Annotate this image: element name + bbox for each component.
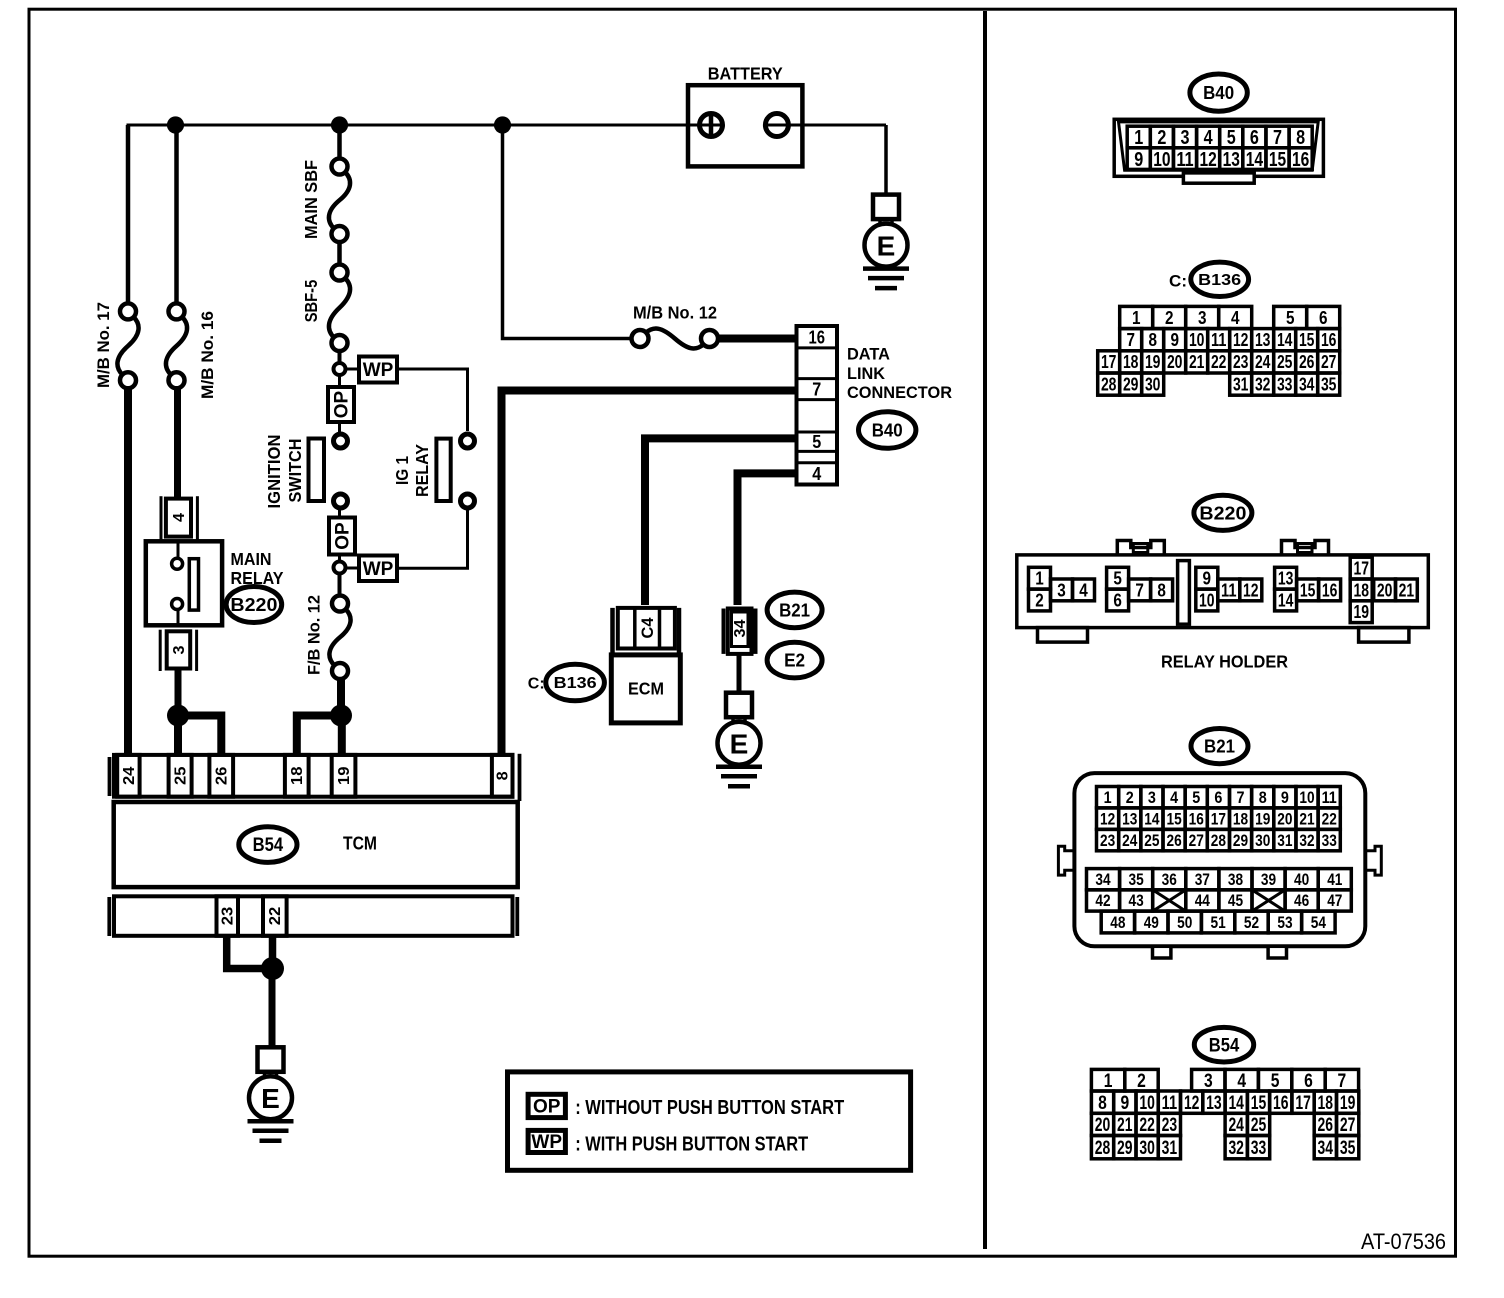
TCM pin 24 [117,755,139,797]
TCM pin 23 [217,896,239,936]
tag OP (upper) [328,387,354,422]
B136 pin 21 [1186,351,1208,373]
ignition switch upper contact [334,434,348,448]
svg-text:15: 15 [1300,579,1316,600]
svg-text:18: 18 [1318,1092,1334,1114]
B21 pin 26 [1163,829,1185,850]
ground E (battery) [873,195,899,220]
B54 pin 22 [1136,1113,1158,1135]
B21 pin 17 [1207,808,1229,829]
B21 pin 39 [1252,869,1285,890]
svg-text:LINK: LINK [847,364,886,383]
svg-text:24: 24 [1255,352,1271,372]
B40 pin 10 [1150,148,1173,170]
svg-text:B220: B220 [1199,502,1246,523]
svg-text:16: 16 [1189,810,1204,828]
B136 pin 15 [1296,329,1318,351]
svg-text:20: 20 [1277,810,1292,828]
junction node relay output [167,705,189,727]
wire WP to IG1 relay upper [397,369,468,431]
svg-text:33: 33 [1251,1137,1267,1159]
B54 pin 15 [1247,1091,1269,1113]
B136 pin 27 [1318,351,1340,373]
svg-text:B54: B54 [253,835,284,856]
svg-text:B136: B136 [554,675,597,692]
data link connector cell divider [797,450,838,453]
svg-text:46: 46 [1294,892,1309,910]
svg-text:3: 3 [1057,579,1066,600]
B54 pin 25 [1247,1113,1269,1135]
wire OP to ignition switch [338,422,341,433]
node circle upper OP/WP [334,363,346,375]
svg-text:24: 24 [1228,1114,1244,1136]
svg-text:29: 29 [1117,1137,1133,1159]
svg-text:28: 28 [1095,1137,1111,1159]
B136 pin 17 [1098,351,1120,373]
svg-text:29: 29 [1123,374,1139,394]
wire node to F/B No.12 fuse [338,574,342,597]
wire node to WP box lower [346,567,360,570]
svg-text:15: 15 [1167,810,1182,828]
svg-text:1: 1 [1104,789,1112,807]
B54 pin 29 [1114,1136,1136,1159]
B21 right latch [1365,846,1382,875]
data link connector cell divider [797,346,838,349]
svg-text:29: 29 [1233,832,1248,850]
main relay coil bar [189,559,198,610]
B136 pin 24 [1252,351,1274,373]
svg-text:4: 4 [1237,1070,1246,1092]
B21 pin 54 [1302,911,1335,933]
svg-text:15: 15 [1299,330,1315,350]
B40 pin 7 [1266,126,1289,148]
B21 pin 42 [1087,890,1120,911]
B21 pin 28 [1207,829,1229,850]
wire 34 to ground [737,654,742,694]
svg-text:13: 13 [1278,568,1294,589]
B21 pin 12 [1097,808,1119,829]
svg-text:6: 6 [1214,789,1222,807]
B21 pin 2 [1119,787,1141,808]
B54 pin 27 [1337,1113,1359,1135]
svg-text:16: 16 [809,328,826,348]
svg-text:11: 11 [1322,789,1337,807]
svg-text:9: 9 [1170,330,1179,350]
B21 pin 5 [1185,787,1207,808]
B40 pin 1 [1127,126,1150,148]
wire node to WP box [346,368,360,371]
B220 pins 9 10 [1196,567,1218,589]
B136 pin 23 [1230,351,1252,373]
svg-text:48: 48 [1110,914,1125,932]
svg-text:3: 3 [1204,1070,1213,1092]
B54 pin 26 [1314,1113,1336,1135]
svg-text:25: 25 [1144,832,1159,850]
svg-text:14: 14 [1278,590,1294,611]
IG 1 relay upper contact [461,434,475,448]
svg-text:4: 4 [1204,126,1213,149]
wire M/B No.12 fuse to DLC pin 16 [718,335,797,343]
svg-text:8: 8 [1296,126,1305,149]
B21 pin 13 [1119,808,1141,829]
svg-text:33: 33 [1322,832,1337,850]
svg-text:4: 4 [1170,789,1179,807]
svg-text:12: 12 [1184,1092,1200,1114]
svg-text:22: 22 [1139,1114,1155,1136]
TCM pin 22 [263,896,287,936]
svg-text:E: E [730,729,749,760]
svg-text:6: 6 [1250,126,1259,149]
svg-text:AT-07536: AT-07536 [1361,1229,1446,1254]
B21 pin 35 [1120,869,1153,890]
svg-text:18: 18 [1123,352,1139,372]
svg-text:4: 4 [171,513,188,522]
svg-text:3: 3 [1181,126,1190,149]
data link connector cell divider [797,398,838,401]
svg-text:23: 23 [1162,1114,1178,1136]
svg-text:6: 6 [1113,590,1122,611]
svg-text:1: 1 [1104,1070,1113,1092]
connector ref B40 (pinout) [1190,74,1247,111]
B136 pin 34 [1296,373,1318,395]
battery negative terminal [765,114,788,137]
fuse F/B No.12 [332,596,348,612]
B21 pin 40 [1285,869,1318,890]
svg-text:TCM: TCM [343,834,377,854]
svg-text:20: 20 [1095,1114,1111,1136]
svg-text:10: 10 [1299,789,1314,807]
connector ref B40 (DLC) [859,412,916,449]
svg-text:8: 8 [1157,579,1166,600]
B54 pin 9 [1114,1091,1136,1113]
tag WP (lower) [359,556,397,582]
B54 pin 18 [1314,1091,1336,1113]
B54 pin 4 [1225,1069,1258,1091]
svg-text:21: 21 [1117,1114,1133,1136]
svg-text:B220: B220 [230,594,277,615]
TCM top row left wing [108,757,112,796]
svg-text:14: 14 [1277,330,1293,350]
svg-text:12: 12 [1199,148,1216,171]
svg-text:IGNITION: IGNITION [264,435,284,509]
svg-text:23: 23 [1100,832,1115,850]
svg-text:CONNECTOR: CONNECTOR [847,383,952,402]
svg-text:C4: C4 [638,617,657,639]
tag WP (upper) [359,357,397,383]
svg-text:31: 31 [1162,1137,1178,1159]
svg-text:RELAY HOLDER: RELAY HOLDER [1161,652,1288,672]
legend box [508,1072,911,1170]
B21 pin 31 [1274,829,1296,850]
B40 pin 8 [1289,126,1312,148]
svg-text:19: 19 [1353,601,1369,622]
svg-text:E: E [877,230,896,261]
svg-text:8: 8 [495,771,512,780]
connector ref B21 (34) [767,592,822,628]
fuse M/B No.16 [169,303,185,319]
connector ref B220 (pinout) [1194,495,1252,530]
connector ref B21 (pinout) [1191,729,1248,764]
svg-text:10: 10 [1153,148,1170,171]
B220 pin 21 [1396,579,1418,601]
svg-text:9: 9 [1120,1092,1129,1114]
B220 pin 8 [1151,579,1173,601]
TCM top pin row [114,755,513,797]
B21 pin 10 [1296,787,1318,808]
TCM bottom pin row [114,896,513,936]
svg-text:45: 45 [1228,892,1243,910]
B21 pin 51 [1201,911,1234,933]
svg-text:37: 37 [1195,871,1210,889]
svg-text:RELAY: RELAY [412,444,432,497]
svg-text:1: 1 [1134,126,1143,149]
B40 pin 12 [1197,148,1220,170]
svg-text:M/B No. 12: M/B No. 12 [633,303,717,323]
B136 pin 31 [1230,373,1252,395]
svg-text:13: 13 [1255,330,1271,350]
panel divider [983,11,987,1249]
svg-text:39: 39 [1261,871,1276,889]
main relay B220 box [146,541,222,625]
svg-text:25: 25 [1251,1114,1267,1136]
B54 pin 32 [1225,1136,1247,1159]
B136 pin 26 [1296,351,1318,373]
B21 pin 9 [1274,787,1296,808]
B21 pin 3 [1141,787,1163,808]
svg-text:47: 47 [1327,892,1342,910]
svg-text:1: 1 [1035,568,1044,589]
svg-text:41: 41 [1327,871,1342,889]
B136 pin 11 [1208,329,1230,351]
svg-text:34: 34 [1318,1137,1334,1159]
svg-text:2: 2 [1165,308,1174,328]
svg-text:26: 26 [1318,1114,1334,1136]
ground E (connector 34) [726,693,752,718]
wire switch to OP box lower [338,509,341,518]
TCM top row right wing [518,754,522,801]
svg-text:8: 8 [1259,789,1267,807]
svg-text:17: 17 [1353,558,1369,579]
svg-text:20: 20 [1377,579,1393,600]
wire DLC pin 5 to ECM C4 [645,438,797,605]
ECM connector wings [610,608,615,653]
fuse SBF-5 [332,265,348,281]
svg-text:31: 31 [1277,832,1292,850]
wire M/B No.17 to TCM pin 24 [124,388,132,757]
wire OP lower to node [338,555,341,562]
svg-text:5: 5 [1286,308,1295,328]
svg-text:23: 23 [220,906,237,925]
svg-text:26: 26 [1167,832,1182,850]
ECM connector C4 box [618,608,675,649]
ignition switch lower contact [334,494,348,508]
B21 pin 11 [1318,787,1340,808]
B21 pin 38 [1219,869,1252,890]
B21 pin 32 [1296,829,1318,850]
svg-text:SBF-5: SBF-5 [301,280,321,323]
svg-text:27: 27 [1189,832,1204,850]
svg-text:6: 6 [1319,308,1328,328]
svg-text:B40: B40 [1203,83,1234,103]
svg-text:IG 1: IG 1 [392,456,412,485]
TCM pin 8 [492,755,513,797]
B21 pin 46 [1285,890,1318,911]
B136 pin 4 [1219,306,1252,328]
B54 pin 1 [1091,1069,1124,1091]
B40 pin 3 [1174,126,1197,148]
svg-text:3: 3 [1198,308,1207,328]
svg-text:35: 35 [1340,1137,1356,1159]
B21 pin 41 [1318,869,1351,890]
svg-text:30: 30 [1255,832,1270,850]
wire DLC pin 7 to TCM pin 8 [502,391,797,757]
svg-text:17: 17 [1101,352,1117,372]
B136 pin 25 [1274,351,1296,373]
fuse M/B No.12 [632,330,649,347]
svg-text:5: 5 [1113,568,1122,589]
wire M/B No.16 drop [174,125,179,304]
svg-text:14: 14 [1246,148,1264,171]
svg-text:19: 19 [1255,810,1270,828]
svg-text:7: 7 [1273,126,1282,149]
B54 pin 5 [1258,1069,1291,1091]
B54 pin 35 [1337,1136,1359,1159]
svg-text:28: 28 [1101,374,1117,394]
svg-text:16: 16 [1273,1092,1289,1114]
B54 pin 23 [1158,1113,1180,1135]
B54 pin 3 [1192,1069,1225,1091]
B220 pins 1 2 [1029,567,1051,589]
B136 pin 18 [1120,351,1142,373]
B220 pin 11 [1218,579,1240,601]
B136 pin 5 [1274,306,1307,328]
svg-text:30: 30 [1145,374,1161,394]
svg-text:15: 15 [1251,1092,1267,1114]
svg-text:13: 13 [1122,810,1137,828]
legend tag WP [528,1130,565,1152]
B136 pin 8 [1142,329,1164,351]
junction node F/B output [330,705,352,727]
node circle lower OP/WP [334,562,346,574]
svg-text:MAIN SBF: MAIN SBF [301,160,321,239]
B40 pin 4 [1197,126,1220,148]
B54 pin 13 [1203,1091,1225,1113]
B136 pin 1 [1120,306,1153,328]
B54 pin 10 [1136,1091,1158,1113]
svg-text:SWITCH: SWITCH [285,439,305,503]
data link connector cell divider [797,377,838,380]
TCM pin 25 [169,755,192,797]
svg-text:2: 2 [1157,126,1166,149]
B220 pin 12 [1240,579,1262,601]
B54 pin 19 [1337,1091,1359,1113]
B21 pin 7 [1230,787,1252,808]
svg-text:51: 51 [1211,914,1226,932]
svg-text:35: 35 [1321,374,1337,394]
B21 pin 25 [1141,829,1163,850]
svg-text:5: 5 [1192,789,1200,807]
wire F/B No.12 to junction [337,679,345,716]
svg-text:C:: C: [528,676,545,693]
svg-text:M/B No. 16: M/B No. 16 [198,311,217,399]
svg-text:33: 33 [1277,374,1293,394]
wire M/B No.17 drop [126,125,131,304]
svg-text:21: 21 [1399,579,1415,600]
svg-text:B136: B136 [1198,272,1241,289]
B54 pin 14 [1225,1091,1247,1113]
svg-text:7: 7 [1126,330,1135,350]
B54 pin 21 [1114,1113,1136,1135]
svg-text:10: 10 [1139,1092,1155,1114]
ground E (TCM) [258,1047,284,1072]
TCM pin 18 [285,755,309,797]
wire node to OP box [338,375,341,387]
B40 pin 6 [1243,126,1266,148]
B136 pin 6 [1307,306,1340,328]
svg-text:5: 5 [1271,1070,1280,1092]
B21 pin 43 [1120,890,1153,911]
svg-text:32: 32 [1228,1137,1244,1159]
svg-text:MAIN: MAIN [231,549,272,569]
connector 34 box [728,609,752,654]
B136 pin 7 [1120,329,1142,351]
B136 pin 9 [1164,329,1186,351]
IG 1 relay lower contact [461,494,475,508]
wire TCM pin 22 down [269,936,277,969]
svg-text:: WITH PUSH BUTTON START: : WITH PUSH BUTTON START [575,1133,808,1155]
svg-text:7: 7 [1237,789,1245,807]
svg-text:12: 12 [1243,579,1259,600]
B136 pin 2 [1153,306,1186,328]
svg-text:11: 11 [1211,330,1227,350]
B21 pin 49 [1135,911,1168,933]
B54 pin 33 [1247,1136,1269,1159]
B21 pin 30 [1252,829,1274,850]
battery [688,85,802,166]
svg-text:17: 17 [1211,810,1226,828]
svg-text:B21: B21 [779,599,810,620]
junction node M/B No.16 tap [167,116,184,133]
B136 pin 33 [1274,373,1296,395]
B21 pin 15 [1163,808,1185,829]
svg-text:21: 21 [1299,810,1314,828]
svg-text:B40: B40 [872,420,903,440]
svg-text:18: 18 [1233,810,1248,828]
svg-text:10: 10 [1199,590,1215,611]
svg-text:7: 7 [812,380,821,400]
connector ref E2 (34) [767,642,822,678]
svg-text:53: 53 [1277,914,1292,932]
B220 pins 5 6 [1107,567,1129,589]
B54 pin 17 [1292,1091,1314,1113]
svg-text:ECM: ECM [628,678,664,698]
B220 bottom tab left [1038,628,1088,643]
B21 blocked cell [1153,890,1186,911]
wire between fuses [337,242,342,265]
B220 pins 17 18 19 [1350,557,1372,579]
B21 pin 19 [1252,808,1274,829]
svg-text:27: 27 [1321,352,1337,372]
svg-text:26: 26 [214,766,231,785]
wire branch to TCM pin 18 [297,716,341,757]
B220 pin 3 [1051,579,1073,601]
svg-text:16: 16 [1322,579,1338,600]
B40 pin 15 [1266,148,1289,170]
svg-text:44: 44 [1195,892,1211,910]
svg-text:26: 26 [1299,352,1315,372]
svg-text:27: 27 [1340,1114,1356,1136]
junction node M/B No.12 tap [494,116,511,133]
